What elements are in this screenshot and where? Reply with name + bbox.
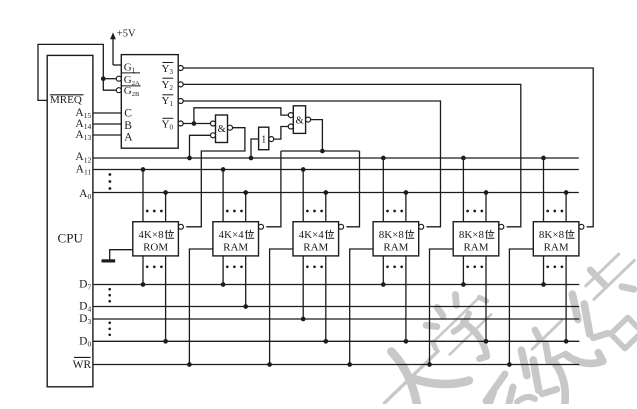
svg-text:RAM: RAM [303,242,328,254]
svg-text:ROM: ROM [143,242,168,254]
svg-text:4K×4: 4K×4 [299,229,325,241]
svg-text:4K×4: 4K×4 [219,229,245,241]
svg-text:&: & [218,124,226,135]
svg-text:8K×8: 8K×8 [539,229,565,241]
svg-text:+5V: +5V [117,29,136,40]
svg-text:B: B [124,120,132,132]
svg-text:A: A [124,132,133,144]
svg-text:RAM: RAM [544,242,569,254]
svg-text:MREQ: MREQ [50,94,82,106]
svg-text:8K×8: 8K×8 [459,229,485,241]
svg-text:WR: WR [73,359,92,371]
svg-text:RAM: RAM [383,242,408,254]
svg-text:8K×8: 8K×8 [379,229,405,241]
svg-text:&: & [296,115,304,126]
svg-text:CPU: CPU [58,230,84,245]
svg-text:RAM: RAM [463,242,488,254]
svg-text:4K×8: 4K×8 [138,229,164,241]
svg-text:RAM: RAM [223,242,248,254]
svg-text:1: 1 [261,135,266,146]
svg-text:C: C [124,108,132,120]
